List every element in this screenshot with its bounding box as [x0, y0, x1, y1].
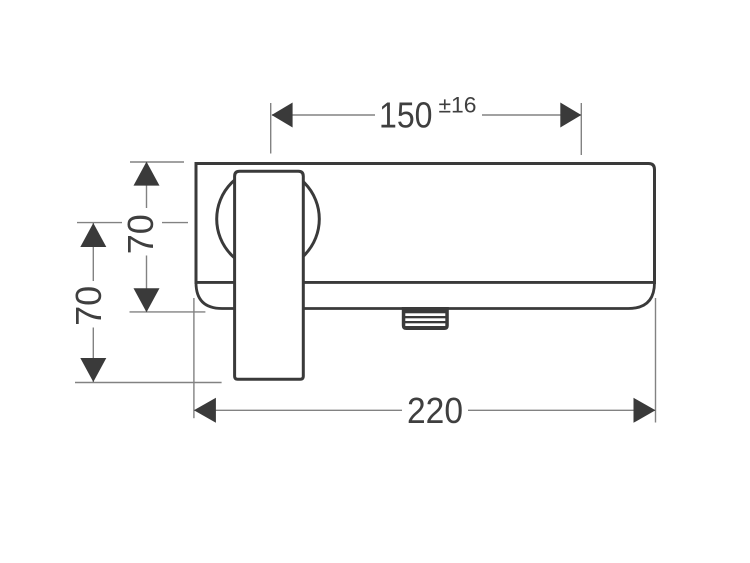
dim 70 inner: dimension line	[146, 163, 148, 312]
dim 220: left extension line	[193, 298, 195, 418]
svg-text:70: 70	[120, 214, 161, 254]
dim 70 inner: label background	[122, 208, 162, 256]
dim 220: right arrowhead	[634, 398, 656, 423]
dim 220: label background	[402, 394, 468, 426]
mixer body outline	[196, 164, 655, 283]
dim 220: left arrowhead	[194, 398, 216, 423]
svg-text:±16: ±16	[439, 93, 477, 118]
dim 70 inner: bottom extension line	[130, 311, 206, 313]
dim 150: right arrowhead	[560, 103, 581, 128]
dim 150: right extension line	[580, 103, 582, 155]
dim 70 outer: bottom arrowhead	[80, 358, 106, 382]
dim 150: left extension line	[270, 103, 272, 154]
svg-text:150: 150	[379, 95, 433, 136]
dim 70 outer: label background	[70, 281, 108, 328]
dim 70 outer: bottom extension line	[75, 382, 222, 384]
dim 70 outer: top extension line	[77, 222, 188, 224]
aerator stripe 2	[405, 318, 445, 321]
escutcheon circle	[217, 168, 320, 271]
lever handle	[235, 171, 304, 379]
dim 150: left arrowhead	[272, 103, 293, 128]
handle clip cover	[236, 165, 301, 171]
mixer body bottom cap	[196, 283, 655, 309]
dim 70 inner: top extension line	[130, 161, 184, 163]
svg-text:70: 70	[68, 286, 109, 326]
dim 220: dimension line	[195, 409, 656, 411]
dim 70 outer: dimension line	[92, 223, 94, 382]
aerator stripe 3	[405, 323, 445, 326]
dim 150: label background	[375, 95, 482, 134]
svg-text:220: 220	[407, 390, 463, 431]
aerator outlet	[402, 307, 449, 330]
dim 70 inner: bottom arrowhead	[134, 288, 160, 312]
dim 150: dimension line	[272, 114, 581, 116]
dim 220: right extension line	[655, 298, 657, 423]
aerator stripe 1	[405, 313, 445, 316]
dim 70 outer: top arrowhead	[80, 223, 106, 247]
dim 70 inner: top arrowhead	[134, 162, 160, 186]
